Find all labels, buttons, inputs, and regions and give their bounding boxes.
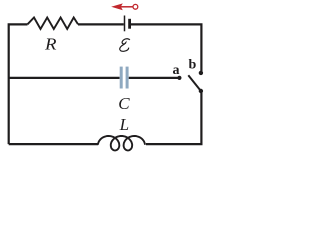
svg-text:L: L (119, 115, 129, 134)
svg-text:C: C (118, 94, 130, 113)
svg-text:a: a (173, 63, 180, 78)
svg-text:b: b (189, 58, 197, 73)
svg-text:R: R (44, 34, 57, 53)
